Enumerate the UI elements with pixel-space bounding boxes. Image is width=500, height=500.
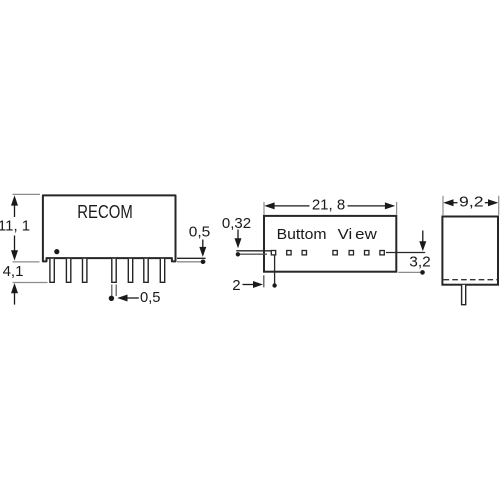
svg-text:9,2: 9,2 [459,194,484,211]
svg-text:2: 2 [232,277,240,294]
svg-text:4,1: 4,1 [3,263,24,280]
svg-text:11, 1: 11, 1 [0,218,30,235]
svg-text:ew: ew [355,226,377,243]
svg-text:21, 8: 21, 8 [312,197,345,214]
svg-text:0,5: 0,5 [140,289,161,306]
svg-text:3,2: 3,2 [409,254,431,271]
svg-text:0,5: 0,5 [189,223,211,240]
svg-text:Buttom: Buttom [277,226,327,243]
svg-text:RECOM: RECOM [77,202,133,222]
svg-text:0,32: 0,32 [222,215,251,232]
svg-text:Vi: Vi [338,226,353,243]
